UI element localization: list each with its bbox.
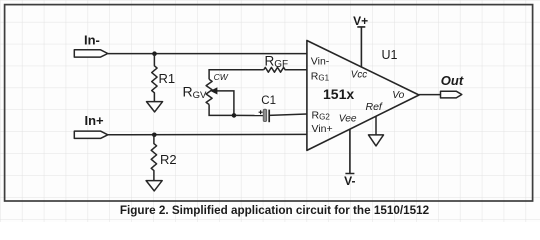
power flag V- (Vee pin) xyxy=(345,129,354,173)
svg-text:CW: CW xyxy=(214,72,229,82)
op-amp U1 (151x) xyxy=(307,41,419,151)
wire Ref pin to ground xyxy=(375,116,377,135)
port In- xyxy=(74,50,108,57)
svg-text:In+: In+ xyxy=(85,113,105,128)
svg-text:151x: 151x xyxy=(323,86,354,102)
junction node In-/R1 xyxy=(152,51,157,56)
label U1 xyxy=(382,48,398,62)
port In+ xyxy=(74,131,108,138)
svg-text:Vin-: Vin- xyxy=(311,56,330,68)
ground (R2) xyxy=(146,181,162,191)
svg-text:Vin+: Vin+ xyxy=(312,123,333,135)
capacitor C1 (polarized) xyxy=(259,109,270,122)
svg-text:V+: V+ xyxy=(353,14,368,28)
svg-text:U1: U1 xyxy=(382,48,398,62)
pin label Vee xyxy=(339,113,357,124)
label RGV xyxy=(183,84,208,101)
wire In+ to Vin+ pin xyxy=(108,133,307,135)
junction node In+/R2 xyxy=(152,133,157,138)
ground (R1) xyxy=(147,102,163,112)
label In+ xyxy=(85,113,105,128)
label CW xyxy=(214,72,229,82)
potentiometer RGV wiper xyxy=(210,87,234,115)
svg-text:C1: C1 xyxy=(261,95,276,107)
svg-text:Ref: Ref xyxy=(366,101,383,113)
label C1 xyxy=(261,95,276,107)
resistor R1 xyxy=(152,54,157,102)
pin label RG2 xyxy=(312,110,331,122)
svg-text:Vcc: Vcc xyxy=(351,70,367,81)
junction node wiper/C1 xyxy=(232,113,237,118)
pin label Vcc xyxy=(351,70,367,81)
pin label Vin- xyxy=(311,56,330,68)
svg-text:Figure 2. Simplified applicati: Figure 2. Simplified application circuit… xyxy=(120,204,430,217)
resistor RGF xyxy=(264,67,307,72)
power flag V+ (Vcc pin) xyxy=(357,27,365,67)
wire Vo to Out port xyxy=(419,94,441,96)
wire C1 to RG2 pin xyxy=(269,114,307,115)
label Out xyxy=(441,73,464,88)
label RGF xyxy=(265,54,289,70)
svg-text:V-: V- xyxy=(344,174,355,188)
svg-text:R1: R1 xyxy=(159,71,176,86)
wire pot bottom rail xyxy=(209,105,235,116)
label V- xyxy=(344,174,355,188)
svg-text:Out: Out xyxy=(441,73,464,88)
pin label Ref xyxy=(366,101,383,113)
label R1 xyxy=(159,71,176,86)
wire In- to Vin- pin xyxy=(108,53,307,55)
wire RGF-left to pot top xyxy=(209,70,264,80)
pin label Vo xyxy=(392,90,404,101)
svg-text:In-: In- xyxy=(84,32,100,47)
ground (Ref) xyxy=(369,135,384,146)
wire junction to C1 xyxy=(235,114,263,116)
pin label RG1 xyxy=(311,71,330,83)
pin label Vin+ xyxy=(312,123,333,135)
port Out xyxy=(441,91,462,98)
label R2 xyxy=(160,152,177,167)
potentiometer RGV body xyxy=(206,79,212,104)
label 151x xyxy=(323,86,354,102)
label In- xyxy=(84,32,100,47)
svg-text:Vo: Vo xyxy=(392,90,404,101)
label V+ xyxy=(353,14,368,28)
svg-text:Vee: Vee xyxy=(339,113,357,124)
svg-text:R2: R2 xyxy=(160,152,177,167)
resistor R2 xyxy=(151,135,156,181)
caption: Figure 2 xyxy=(120,204,430,217)
